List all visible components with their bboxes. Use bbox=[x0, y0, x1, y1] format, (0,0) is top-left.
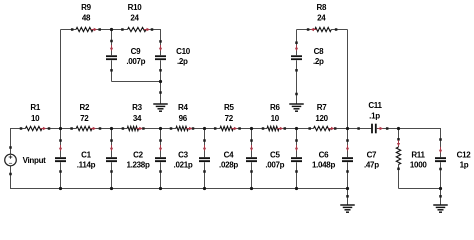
node N8 junction bbox=[397, 127, 400, 130]
wire top section segment C bbox=[146, 29, 161, 31]
svg-text:R1: R1 bbox=[30, 103, 40, 112]
svg-text:96: 96 bbox=[179, 114, 188, 123]
svg-text:R8: R8 bbox=[316, 3, 326, 12]
svg-text:10: 10 bbox=[271, 114, 280, 123]
wire R11 branch upper bbox=[398, 129, 400, 148]
node N5 junction bbox=[250, 127, 253, 130]
svg-text:C1: C1 bbox=[81, 151, 91, 160]
wire R5-R6 segment bbox=[233, 128, 267, 130]
capacitor C7 bbox=[342, 157, 353, 159]
wire R1-R2 segment bbox=[42, 128, 76, 130]
svg-text:C9: C9 bbox=[131, 47, 141, 56]
svg-text:24: 24 bbox=[130, 14, 139, 23]
svg-text:Vinput: Vinput bbox=[23, 156, 47, 165]
wire C3 branch lower bbox=[160, 162, 162, 188]
ground below C10 bbox=[160, 93, 162, 105]
capacitor C12 bbox=[435, 157, 446, 159]
svg-text:1.238p: 1.238p bbox=[126, 160, 150, 169]
svg-text:72: 72 bbox=[225, 114, 234, 123]
node N2 junction bbox=[110, 127, 113, 130]
svg-text:C6: C6 bbox=[319, 151, 329, 160]
svg-text:C10: C10 bbox=[176, 47, 191, 56]
resistor R2 bbox=[76, 126, 92, 130]
ground below C8 bbox=[296, 94, 298, 104]
wire C1 branch upper bbox=[60, 129, 62, 158]
ground left rail bbox=[347, 189, 349, 206]
wire main line left segment bbox=[10, 128, 25, 130]
svg-text:24: 24 bbox=[317, 14, 326, 23]
wire C9 bottom link bbox=[112, 81, 161, 83]
svg-text:R5: R5 bbox=[224, 103, 234, 112]
wire left riser to top section bbox=[60, 30, 62, 129]
resistor R11 bbox=[396, 147, 400, 165]
svg-text:72: 72 bbox=[80, 114, 89, 123]
capacitor C8 bbox=[291, 55, 302, 57]
bottom rail junction bbox=[250, 187, 253, 190]
svg-text:R3: R3 bbox=[132, 103, 142, 112]
wire C6 branch lower bbox=[296, 162, 298, 188]
wire R4-R5 segment bbox=[188, 128, 220, 130]
svg-text:C5: C5 bbox=[270, 151, 280, 160]
resistor R7 bbox=[314, 126, 331, 130]
svg-text:.007p: .007p bbox=[126, 57, 145, 66]
capacitor C9 bbox=[106, 55, 117, 57]
svg-text:120: 120 bbox=[315, 114, 328, 123]
node C9-C10 bottom junction bbox=[159, 80, 162, 83]
wire R7-C11 segment bbox=[330, 128, 371, 130]
wire C3 branch upper bbox=[160, 129, 162, 158]
svg-text:R10: R10 bbox=[128, 3, 143, 12]
wire source bottom stub bbox=[10, 166, 12, 189]
wire C10 branch lower bbox=[160, 60, 162, 81]
svg-text:R7: R7 bbox=[317, 103, 327, 112]
wire right riser N7 bbox=[347, 30, 349, 129]
svg-text:.021p: .021p bbox=[174, 160, 193, 169]
wire C2 branch upper bbox=[111, 129, 113, 158]
wire C4 branch lower bbox=[204, 162, 206, 188]
capacitor C5 bbox=[246, 157, 257, 159]
wire R6-R7 segment bbox=[279, 128, 314, 130]
svg-text:.1p: .1p bbox=[369, 111, 380, 120]
wire C4 branch upper bbox=[204, 129, 206, 158]
wire C7 branch lower bbox=[347, 162, 349, 188]
svg-text:C3: C3 bbox=[178, 151, 188, 160]
svg-text:.47p: .47p bbox=[364, 160, 379, 169]
wire R3-R4 segment bbox=[139, 128, 176, 130]
wire C9 branch upper bbox=[111, 30, 113, 56]
svg-text:C2: C2 bbox=[133, 151, 143, 160]
wire R8 segment left bbox=[297, 29, 315, 31]
resistor R1 bbox=[25, 126, 42, 130]
svg-text:R11: R11 bbox=[411, 151, 425, 160]
resistor R3 bbox=[127, 126, 138, 130]
wire bottom rail left bbox=[10, 188, 348, 190]
resistor R10 bbox=[128, 27, 147, 31]
bottom rail junction bbox=[295, 187, 298, 190]
bottom rail junction bbox=[110, 187, 113, 190]
bottom rail junction bbox=[203, 187, 206, 190]
svg-text:C4: C4 bbox=[224, 151, 234, 160]
capacitor C10 bbox=[155, 55, 166, 57]
capacitor C1 bbox=[55, 157, 66, 159]
node N7 junction bbox=[346, 127, 349, 130]
wire C12 branch lower bbox=[440, 162, 442, 188]
wire C5 branch upper bbox=[251, 129, 253, 158]
wire C5 branch lower bbox=[251, 162, 253, 188]
wire R8 segment right bbox=[331, 29, 347, 31]
wire C10 to ground bbox=[160, 82, 162, 105]
right rail junction bbox=[439, 187, 442, 190]
ground right rail bbox=[440, 189, 442, 206]
wire source top stub bbox=[10, 129, 12, 155]
wire C7 branch upper bbox=[347, 129, 349, 158]
svg-text:1p: 1p bbox=[460, 160, 469, 169]
bottom rail junction bbox=[346, 187, 349, 190]
wire C8 branch to ground bbox=[296, 60, 298, 104]
svg-text:34: 34 bbox=[133, 114, 142, 123]
bottom rail junction bbox=[159, 187, 162, 190]
svg-text:48: 48 bbox=[82, 14, 91, 23]
svg-text:C8: C8 bbox=[314, 47, 324, 56]
capacitor C3 bbox=[155, 157, 166, 159]
capacitor C2 bbox=[106, 157, 117, 159]
node N4 junction bbox=[203, 127, 206, 130]
wire R2-R3 segment bbox=[92, 128, 127, 130]
wire top section segment B bbox=[93, 29, 128, 31]
node N6 junction bbox=[295, 127, 298, 130]
resistor R5 bbox=[220, 126, 233, 130]
node N1 junction bbox=[59, 127, 62, 130]
svg-text:R6: R6 bbox=[270, 103, 280, 112]
resistor R8 bbox=[315, 27, 332, 31]
wire R11 branch lower bbox=[398, 165, 400, 189]
resistor R4 bbox=[176, 126, 188, 130]
wire bottom rail right bbox=[399, 188, 442, 190]
wire C8 branch upper bbox=[296, 30, 298, 56]
wire C9 branch lower bbox=[111, 60, 113, 81]
svg-text:R2: R2 bbox=[79, 103, 89, 112]
svg-text:.028p: .028p bbox=[219, 160, 238, 169]
svg-text:1.048p: 1.048p bbox=[312, 160, 336, 169]
svg-text:C7: C7 bbox=[367, 151, 377, 160]
svg-text:.007p: .007p bbox=[265, 160, 284, 169]
bottom rail junction bbox=[59, 187, 62, 190]
node N3 junction bbox=[159, 127, 162, 130]
wire C11-right corner segment bbox=[377, 128, 441, 130]
node R9-R10 junction bbox=[110, 28, 113, 31]
svg-text:R9: R9 bbox=[81, 3, 91, 12]
resistor R9 bbox=[76, 27, 93, 31]
svg-text:R4: R4 bbox=[178, 103, 188, 112]
wire C2 branch lower bbox=[111, 162, 113, 188]
svg-text:C11: C11 bbox=[368, 101, 382, 110]
wire C12 branch upper bbox=[440, 129, 442, 158]
wire C1 branch lower bbox=[60, 162, 62, 188]
svg-text:C12: C12 bbox=[457, 151, 472, 160]
svg-text:.2p: .2p bbox=[177, 57, 188, 66]
wire C6 branch upper bbox=[296, 129, 298, 158]
svg-text:1000: 1000 bbox=[410, 160, 427, 169]
svg-text:.2p: .2p bbox=[313, 57, 324, 66]
wire top section segment A bbox=[61, 29, 77, 31]
capacitor C11 bbox=[371, 124, 373, 134]
svg-text:10: 10 bbox=[31, 114, 40, 123]
voltage source Vinput bbox=[5, 154, 17, 166]
capacitor C6 bbox=[291, 157, 302, 159]
resistor R6 bbox=[267, 126, 279, 130]
capacitor C4 bbox=[199, 157, 210, 159]
svg-text:.114p: .114p bbox=[77, 160, 96, 169]
wire C10 branch upper bbox=[160, 30, 162, 56]
